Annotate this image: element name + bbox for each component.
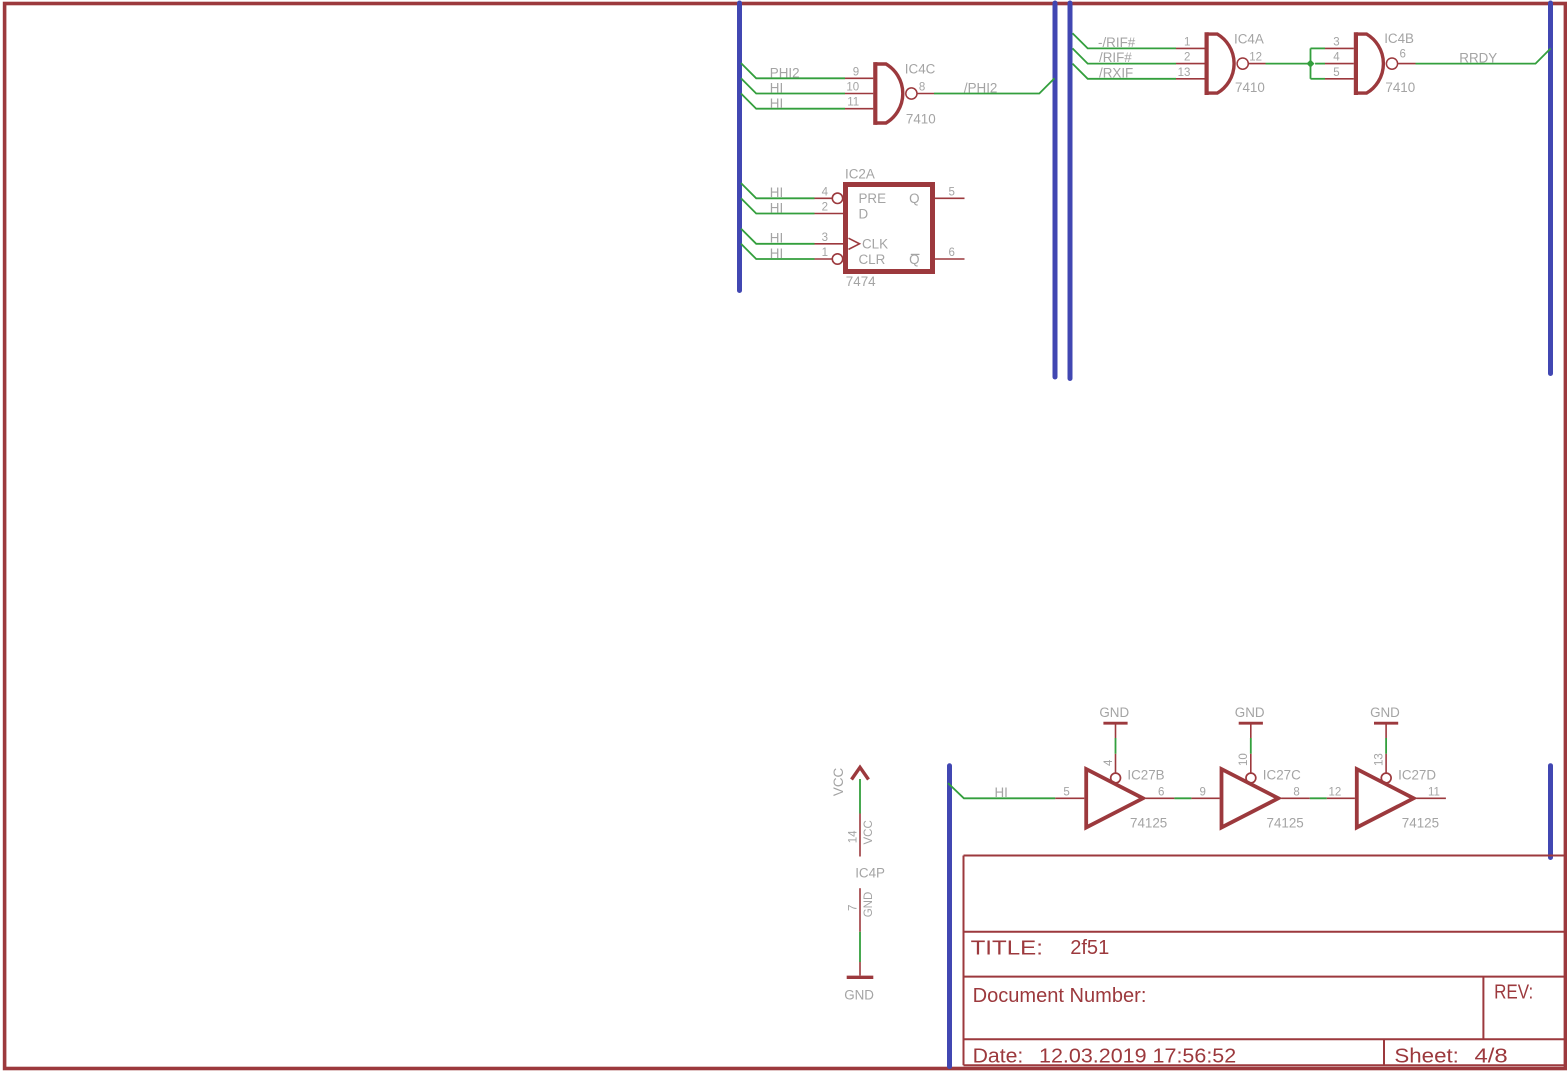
- svg-text:5: 5: [949, 186, 955, 198]
- pin 10 stub upper: [1250, 725, 1252, 739]
- svg-text:13: 13: [1178, 67, 1191, 79]
- svg-text:IC27D: IC27D: [1398, 768, 1436, 783]
- buffer IC27B: [1086, 769, 1143, 827]
- wire HI (pin1 CLR): [741, 244, 815, 259]
- svg-text:TITLE:: TITLE:: [971, 938, 1043, 960]
- wire /RIF#: [1073, 48, 1177, 63]
- buffer IC27C: [1222, 769, 1279, 827]
- bus B4 (top right): [1548, 3, 1553, 374]
- svg-text:IC4B: IC4B: [1384, 31, 1414, 46]
- wire IC4A out to junction: [1266, 63, 1311, 65]
- svg-text:4: 4: [1103, 759, 1115, 766]
- wire PHI2: [741, 63, 845, 78]
- svg-text:CLK: CLK: [862, 237, 888, 252]
- svg-text:8: 8: [1293, 786, 1299, 798]
- svg-text:6: 6: [1400, 49, 1406, 61]
- wire branch pin3: [1311, 47, 1326, 49]
- svg-text:13: 13: [1373, 753, 1385, 766]
- svg-text:HI: HI: [770, 200, 783, 215]
- svg-text:8: 8: [919, 81, 925, 93]
- svg-text:D: D: [859, 206, 869, 221]
- svg-text:GND: GND: [1235, 705, 1265, 720]
- pin 10 stub lower: [1250, 754, 1252, 773]
- pin 6 stub IC4B: [1398, 63, 1416, 65]
- bus B6 (bottom): [947, 766, 952, 1067]
- pin 6 stub: [935, 258, 965, 260]
- wire branch pin5: [1311, 78, 1326, 80]
- pin 8 stub IC27C: [1281, 797, 1310, 799]
- svg-text:REV:: REV:: [1494, 981, 1533, 1003]
- svg-text:IC27C: IC27C: [1263, 768, 1301, 783]
- pin 1 stub IC4A: [1176, 47, 1205, 49]
- svg-text:IC4C: IC4C: [905, 62, 936, 77]
- junction node: [1307, 60, 1315, 68]
- svg-text:IC27B: IC27B: [1127, 768, 1164, 783]
- svg-text:5: 5: [1063, 786, 1069, 798]
- svg-text:10: 10: [1238, 753, 1250, 766]
- pin 3 stub: [815, 243, 846, 245]
- svg-text:4: 4: [1333, 52, 1340, 64]
- svg-text:9: 9: [1199, 786, 1205, 798]
- pin 12 stub: [1249, 63, 1266, 65]
- svg-text:7474: 7474: [846, 274, 876, 289]
- svg-text:VCC: VCC: [863, 820, 875, 844]
- svg-text:2f51: 2f51: [1070, 937, 1109, 959]
- svg-text:Sheet:: Sheet:: [1394, 1045, 1459, 1067]
- svg-text:2: 2: [822, 202, 828, 214]
- wire RRDY: [1416, 48, 1551, 63]
- pin 2 stub: [815, 213, 846, 215]
- svg-text:HI: HI: [770, 185, 783, 200]
- ground symbol IC27D: [1374, 722, 1398, 725]
- pin 8 stub: [917, 93, 934, 95]
- wire VCC to pin14: [859, 779, 861, 814]
- bus B3 (middle pair, right): [1068, 3, 1073, 379]
- svg-text:HI: HI: [770, 81, 783, 96]
- wire /RXIF: [1073, 64, 1177, 79]
- svg-text:/RIF#: /RIF#: [1099, 50, 1132, 65]
- pin 14 stub: [859, 814, 861, 857]
- pin 3 stub IC4B: [1325, 47, 1354, 49]
- svg-text:9: 9: [853, 66, 859, 78]
- svg-text:2: 2: [1184, 52, 1190, 64]
- svg-text:7410: 7410: [1235, 80, 1265, 95]
- svg-text:11: 11: [847, 97, 859, 109]
- flip-flop IC2A body: [832, 185, 932, 272]
- pin 9 stub: [845, 77, 873, 79]
- ground symbol IC27B: [1103, 722, 1127, 725]
- pin 9 stub IC27C: [1191, 797, 1219, 799]
- wire IC27B to IC27C: [1174, 797, 1191, 799]
- svg-text:PHI2: PHI2: [770, 65, 800, 80]
- pin 10 stub: [845, 93, 873, 95]
- svg-text:Document Number:: Document Number:: [973, 985, 1147, 1007]
- svg-text:3: 3: [1333, 36, 1339, 48]
- bus B2 (middle pair, left): [1053, 3, 1058, 377]
- wire GND to pin10: [1250, 738, 1252, 754]
- svg-text:10: 10: [846, 82, 859, 94]
- svg-text:3: 3: [822, 232, 828, 244]
- svg-text:12.03.2019 17:56:52: 12.03.2019 17:56:52: [1039, 1045, 1236, 1067]
- pin 13 stub lower: [1385, 754, 1387, 773]
- svg-text:HI: HI: [995, 785, 1008, 800]
- svg-text:IC4A: IC4A: [1234, 32, 1264, 47]
- pin 5 stub: [935, 197, 965, 199]
- bus B5 (right, above title block): [1548, 766, 1553, 858]
- wire -/RIF#: [1073, 33, 1177, 48]
- svg-text:GND: GND: [1099, 705, 1129, 720]
- svg-text:74125: 74125: [1267, 815, 1304, 830]
- svg-text:CLR: CLR: [859, 252, 886, 267]
- svg-text:4/8: 4/8: [1475, 1045, 1508, 1067]
- svg-text:12: 12: [1329, 786, 1342, 798]
- wire GND to pin4: [1115, 738, 1117, 754]
- wire HI (pin10): [741, 78, 845, 93]
- pin 7 stub: [859, 888, 861, 932]
- wire branch vertical: [1310, 48, 1312, 78]
- svg-text:7410: 7410: [906, 112, 936, 127]
- svg-text:/PHI2: /PHI2: [964, 80, 998, 95]
- pin 11 stub: [845, 108, 873, 110]
- svg-text:/RXIF: /RXIF: [1099, 65, 1133, 80]
- wire HI to IC27B: [948, 783, 1055, 798]
- pin 6 stub IC27B: [1146, 797, 1174, 799]
- svg-text:GND: GND: [1370, 705, 1400, 720]
- pin 5 stub IC27B: [1055, 797, 1084, 799]
- svg-text:1: 1: [822, 247, 828, 259]
- bus B1 (top left): [737, 3, 742, 291]
- pin name Qbar: [909, 252, 919, 267]
- pin 13 stub upper: [1385, 725, 1387, 739]
- svg-text:5: 5: [1333, 67, 1339, 79]
- svg-text:-/RIF#: -/RIF#: [1098, 35, 1136, 50]
- ground symbol IC27C: [1239, 722, 1263, 725]
- svg-text:74125: 74125: [1130, 815, 1167, 830]
- nand gate IC4B: [1356, 32, 1398, 95]
- nand gate IC4A: [1207, 32, 1249, 95]
- svg-text:7410: 7410: [1385, 80, 1415, 95]
- svg-text:74125: 74125: [1402, 815, 1439, 830]
- svg-text:HI: HI: [770, 246, 783, 261]
- wire GND to pin13: [1385, 738, 1387, 754]
- svg-text:IC2A: IC2A: [845, 167, 875, 182]
- pin 4 stub upper: [1115, 725, 1117, 739]
- pin 4 stub IC4B: [1325, 63, 1354, 65]
- svg-text:1: 1: [1184, 36, 1190, 48]
- wire /PHI2: [934, 78, 1055, 93]
- pin 12 stub IC27D: [1327, 797, 1355, 799]
- svg-text:HI: HI: [770, 96, 783, 111]
- svg-text:PRE: PRE: [859, 191, 887, 206]
- svg-text:RRDY: RRDY: [1459, 50, 1497, 65]
- svg-text:VCC: VCC: [831, 767, 846, 796]
- pin 13 stub IC4A: [1176, 78, 1205, 80]
- nand gate IC4C: [875, 62, 917, 125]
- svg-text:14: 14: [848, 830, 860, 843]
- pin 11 stub IC27D: [1417, 797, 1446, 799]
- svg-text:6: 6: [949, 247, 955, 259]
- wire pin7 to GND: [859, 932, 861, 962]
- pin 4 stub lower: [1115, 754, 1117, 773]
- pin 5 stub IC4B: [1325, 78, 1354, 80]
- pin 2 stub IC4A: [1176, 63, 1205, 65]
- pin 4 stub: [815, 197, 833, 199]
- wire HI (pin4 PRE): [741, 183, 815, 198]
- ground symbol IC4P: [847, 976, 874, 979]
- svg-text:GND: GND: [844, 987, 874, 1002]
- wire IC27C to IC27D: [1310, 797, 1327, 799]
- title block outline: [964, 856, 1565, 1066]
- wire HI (pin3 CLK): [741, 229, 815, 244]
- svg-text:IC4P: IC4P: [855, 865, 885, 880]
- svg-text:7: 7: [848, 905, 860, 911]
- svg-text:6: 6: [1158, 786, 1164, 798]
- svg-text:12: 12: [1249, 52, 1262, 64]
- wire branch pin4: [1315, 63, 1325, 65]
- svg-text:Date:: Date:: [973, 1045, 1024, 1067]
- pin 1 stub: [815, 258, 833, 260]
- svg-text:HI: HI: [770, 231, 783, 246]
- wire GND stub: [859, 962, 861, 976]
- wire HI (pin2 D): [741, 198, 815, 213]
- svg-text:11: 11: [1428, 786, 1440, 798]
- VCC symbol: [852, 767, 869, 779]
- buffer IC27D: [1357, 769, 1414, 827]
- svg-text:GND: GND: [863, 892, 875, 918]
- svg-text:4: 4: [822, 186, 829, 198]
- wire HI (pin11): [741, 94, 845, 109]
- svg-text:Q: Q: [909, 191, 919, 206]
